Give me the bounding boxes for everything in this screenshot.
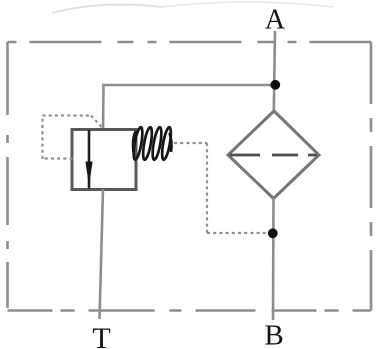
pilot line: into node on B line xyxy=(207,232,268,234)
valve V1 body (pressure relief valve envelope) xyxy=(72,130,136,190)
pilot line: diagonal tap into main branch xyxy=(91,116,103,129)
pilot line: down right side xyxy=(206,143,208,233)
pilot line: up left side xyxy=(41,116,43,160)
wire: valve T port down through boundary to tank T xyxy=(100,189,104,319)
spring (valve V1 setting spring) xyxy=(132,127,173,161)
filter F1 element (dashed diagonal) xyxy=(230,154,317,157)
enclosure dashed boundary bottom edge xyxy=(8,309,372,312)
wire: horizontal from node to valve branch xyxy=(104,84,276,87)
pilot line: from spring end going right xyxy=(174,142,207,144)
svg-text:B: B xyxy=(264,320,283,349)
wire: port A down to filter top xyxy=(274,31,275,112)
wire: filter bottom down through boundary to port B xyxy=(272,198,275,320)
pilot line: from valve left side going left xyxy=(43,157,73,159)
enclosure dashed boundary left edge xyxy=(6,42,9,311)
valve V1 flow path line (closed position, offset) xyxy=(88,130,91,189)
svg-text:A: A xyxy=(265,5,286,36)
wire: vertical branch down to valve P port xyxy=(102,84,105,131)
node: junction dot on B line xyxy=(268,228,278,238)
valve V1 flow arrowhead xyxy=(85,162,92,187)
pilot line: across the top xyxy=(43,114,92,116)
svg-text:T: T xyxy=(92,322,110,349)
enclosure dashed boundary right edge xyxy=(370,42,373,311)
node: junction dot on A line xyxy=(270,80,280,90)
filter F1 diamond envelope xyxy=(228,111,319,199)
enclosure dashed boundary top edge xyxy=(8,41,372,44)
